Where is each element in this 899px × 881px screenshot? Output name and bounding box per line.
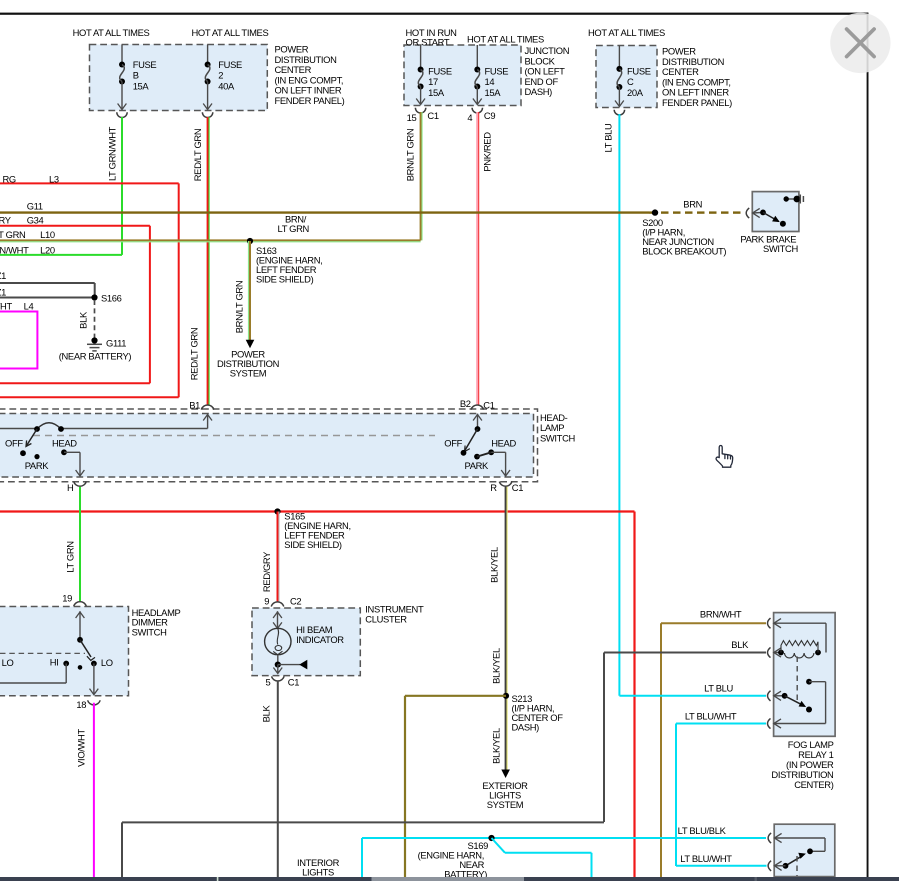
- svg-text:G34: G34: [27, 214, 44, 225]
- svg-text:SWITCH: SWITCH: [132, 626, 167, 637]
- svg-text:OFF: OFF: [5, 438, 23, 449]
- svg-text:15A: 15A: [485, 87, 502, 98]
- svg-text:H: H: [67, 482, 73, 493]
- svg-text:SYSTEM: SYSTEM: [487, 799, 524, 810]
- svg-text:LT BLU/WHT: LT BLU/WHT: [685, 711, 737, 722]
- svg-text:LT GRN: LT GRN: [0, 229, 25, 240]
- svg-text:FUSE: FUSE: [627, 65, 651, 76]
- svg-text:PARK: PARK: [465, 460, 490, 471]
- svg-text:GRY: GRY: [0, 214, 12, 225]
- svg-text:C1: C1: [512, 482, 523, 493]
- svg-text:RED/LT GRN: RED/LT GRN: [192, 129, 203, 182]
- svg-text:R: R: [490, 482, 497, 493]
- svg-text:INDICATOR: INDICATOR: [296, 634, 344, 645]
- svg-text:HOT AT ALL TIMES: HOT AT ALL TIMES: [73, 27, 150, 38]
- svg-text:40A: 40A: [218, 80, 235, 91]
- svg-text:20A: 20A: [627, 87, 644, 98]
- svg-text:BLOCK BREAKOUT): BLOCK BREAKOUT): [642, 246, 726, 257]
- svg-text:Z1: Z1: [0, 287, 6, 298]
- svg-text:BLK: BLK: [261, 705, 272, 723]
- svg-text:FUSE: FUSE: [218, 59, 242, 70]
- svg-text:HOT AT ALL TIMES: HOT AT ALL TIMES: [467, 33, 544, 44]
- svg-text:OFF: OFF: [444, 438, 462, 449]
- svg-text:SYSTEM: SYSTEM: [230, 367, 267, 378]
- svg-text:G11: G11: [27, 200, 43, 211]
- svg-text:15A: 15A: [133, 80, 150, 91]
- svg-text:SWITCH: SWITCH: [540, 432, 575, 443]
- svg-text:RN/WHT: RN/WHT: [0, 245, 29, 256]
- svg-text:C9: C9: [484, 110, 495, 121]
- svg-text:L3: L3: [49, 174, 59, 185]
- svg-text:C: C: [627, 76, 634, 87]
- svg-text:LO: LO: [101, 657, 113, 668]
- svg-text:FUSE: FUSE: [428, 65, 452, 76]
- svg-text:BRN/WHT: BRN/WHT: [700, 608, 742, 619]
- svg-text:FUSE: FUSE: [485, 65, 509, 76]
- svg-text:LT GRN/WHT: LT GRN/WHT: [106, 126, 117, 181]
- svg-text:VIO/WHT: VIO/WHT: [76, 729, 87, 767]
- svg-text:WHT: WHT: [0, 300, 12, 311]
- svg-text:DASH): DASH): [512, 721, 540, 732]
- svg-text:G111: G111: [106, 337, 126, 348]
- svg-text:17: 17: [428, 76, 438, 87]
- svg-text:15: 15: [407, 112, 417, 123]
- svg-text:PNK/RED: PNK/RED: [482, 132, 493, 172]
- svg-text:LT BLU/BLK: LT BLU/BLK: [678, 825, 727, 836]
- svg-text:FUSE: FUSE: [133, 59, 157, 70]
- svg-text:SWITCH: SWITCH: [763, 243, 798, 254]
- svg-text:LT BLU: LT BLU: [704, 682, 733, 693]
- svg-text:BRN/LT GRN: BRN/LT GRN: [233, 281, 244, 334]
- svg-text:2: 2: [218, 70, 223, 81]
- svg-text:HEAD: HEAD: [52, 438, 77, 449]
- svg-text:DASH): DASH): [525, 86, 553, 97]
- svg-text:C1: C1: [483, 399, 494, 410]
- svg-text:C2: C2: [290, 596, 301, 607]
- svg-text:L20: L20: [40, 245, 55, 256]
- svg-text:LT BLU: LT BLU: [603, 123, 614, 152]
- svg-text:BLK: BLK: [78, 311, 89, 329]
- svg-text:B2: B2: [460, 398, 471, 409]
- svg-text:L10: L10: [40, 229, 55, 240]
- svg-text:HOT AT ALL TIMES: HOT AT ALL TIMES: [588, 27, 665, 38]
- svg-text:18: 18: [76, 699, 86, 710]
- svg-text:B1: B1: [189, 400, 200, 411]
- svg-text:9: 9: [264, 596, 269, 607]
- svg-text:19: 19: [62, 592, 72, 603]
- svg-text:LT GRN: LT GRN: [65, 541, 76, 572]
- svg-text:HOT AT ALL TIMES: HOT AT ALL TIMES: [192, 27, 269, 38]
- svg-text:BLK/YEL: BLK/YEL: [491, 648, 502, 684]
- svg-text:15A: 15A: [428, 87, 445, 98]
- svg-text:14: 14: [485, 76, 495, 87]
- svg-text:CENTER): CENTER): [794, 779, 834, 790]
- svg-text:L4: L4: [24, 300, 34, 311]
- svg-text:S166: S166: [101, 293, 122, 304]
- svg-text:LT GRN: LT GRN: [278, 223, 309, 234]
- svg-text:OR START: OR START: [406, 36, 450, 47]
- svg-text:FENDER PANEL): FENDER PANEL): [275, 95, 345, 106]
- svg-text:BRN: BRN: [683, 199, 702, 210]
- svg-text:RED/GRY: RED/GRY: [261, 551, 272, 592]
- svg-text:SIDE SHIELD): SIDE SHIELD): [256, 274, 314, 285]
- svg-text:LT BLU/WHT: LT BLU/WHT: [680, 853, 732, 864]
- svg-text:CLUSTER: CLUSTER: [365, 614, 407, 625]
- svg-text:Z1: Z1: [0, 270, 6, 281]
- svg-text:5: 5: [266, 676, 271, 687]
- svg-text:HEAD: HEAD: [491, 438, 516, 449]
- svg-text:BRN/LT GRN: BRN/LT GRN: [405, 129, 416, 182]
- svg-text:BLK/YEL: BLK/YEL: [491, 728, 502, 764]
- svg-text:4: 4: [467, 112, 472, 123]
- svg-text:SIDE SHIELD): SIDE SHIELD): [284, 539, 342, 550]
- svg-text:B: B: [133, 70, 139, 81]
- svg-text:C1: C1: [288, 676, 299, 687]
- svg-text:HI: HI: [50, 657, 59, 668]
- svg-text:LO: LO: [2, 657, 14, 668]
- svg-text:FENDER PANEL): FENDER PANEL): [662, 97, 732, 108]
- svg-text:RED/LT GRN: RED/LT GRN: [189, 328, 200, 381]
- svg-text:(NEAR BATTERY): (NEAR BATTERY): [59, 351, 132, 362]
- svg-text:BLK: BLK: [731, 639, 749, 650]
- svg-text:BLK/YEL: BLK/YEL: [489, 547, 500, 583]
- svg-text:PARK: PARK: [25, 460, 50, 471]
- svg-text:C1: C1: [427, 110, 438, 121]
- svg-text:RG: RG: [3, 174, 16, 185]
- svg-text:LIGHTS: LIGHTS: [302, 867, 334, 878]
